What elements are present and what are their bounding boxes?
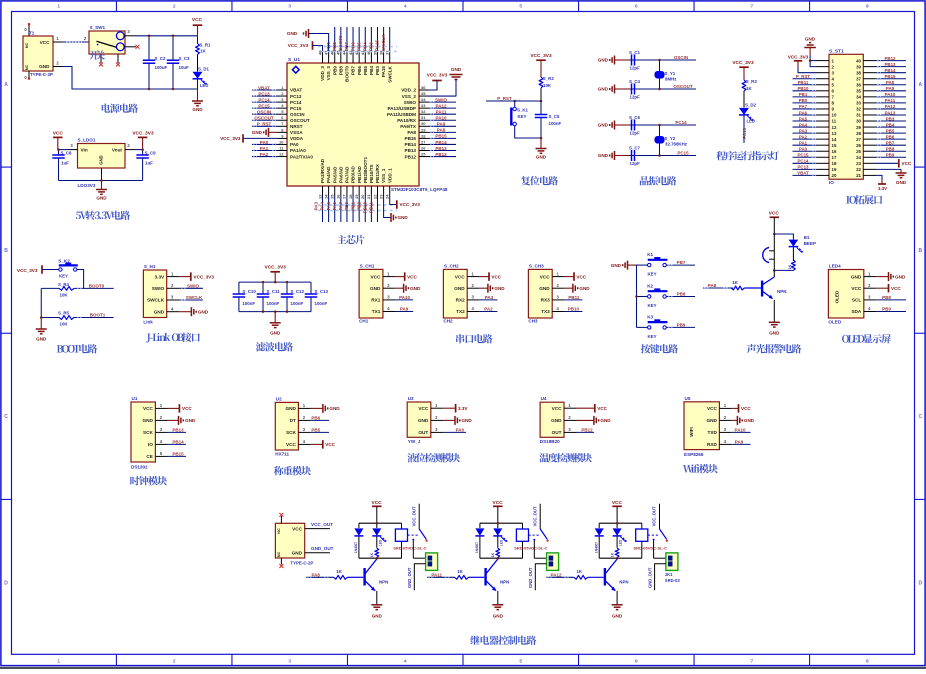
net PB8 wire OLED SCL <box>876 295 906 300</box>
svg-text:PB12: PB12 <box>581 428 593 433</box>
svg-text:38: 38 <box>856 70 861 75</box>
svg-text:GND: GND <box>598 153 609 158</box>
net OSCIN wire <box>660 55 697 60</box>
svg-text:VCC: VCC <box>370 274 381 279</box>
junction dots power rail <box>148 35 151 38</box>
svg-text:13: 13 <box>832 131 837 136</box>
net BOOT0 wire <box>41 284 113 289</box>
svg-text:PB12: PB12 <box>885 56 897 61</box>
S_ST1 pin 19 <box>793 165 837 172</box>
svg-text:PC15: PC15 <box>258 103 270 108</box>
capacitor S_C6 12pF <box>615 115 660 136</box>
svg-text:VCC_OUT: VCC_OUT <box>311 522 333 527</box>
svg-text:27: 27 <box>856 137 861 142</box>
power VCC temperature pin1 <box>577 404 608 413</box>
svg-text:PA2: PA2 <box>260 152 269 157</box>
svg-text:PC15: PC15 <box>290 106 302 111</box>
svg-text:PB14: PB14 <box>405 142 417 147</box>
svg-text:3.3V: 3.3V <box>878 186 887 191</box>
svg-text:3: 3 <box>288 4 291 10</box>
ground symbol wifi pin2 <box>732 416 755 425</box>
svg-text:K3: K3 <box>647 314 653 319</box>
svg-text:KEY: KEY <box>648 334 657 339</box>
svg-text:VCC: VCC <box>612 500 623 506</box>
svg-text:48: 48 <box>317 50 322 55</box>
svg-text:RXD: RXD <box>707 442 718 447</box>
svg-text:7: 7 <box>750 659 753 665</box>
svg-text:VCC_OUT: VCC_OUT <box>411 506 416 526</box>
svg-text:2: 2 <box>173 659 176 665</box>
label weight module <box>274 466 311 475</box>
svg-text:VCC: VCC <box>372 500 383 506</box>
push button K1 KEY <box>637 252 668 277</box>
ground symbol at S_C6 <box>614 121 616 130</box>
relay coil PA11 SRD-05VDC-SL-C <box>514 523 547 558</box>
capacitor S_C11 100nF <box>257 282 280 312</box>
svg-text:3.3V: 3.3V <box>155 274 166 279</box>
svg-text:18: 18 <box>832 161 837 166</box>
svg-text:LED4: LED4 <box>829 264 841 269</box>
svg-text:33: 33 <box>856 101 861 106</box>
switch open-contact no-connect marks <box>99 63 103 67</box>
svg-text:LED: LED <box>499 539 503 546</box>
capacitor S_C4 12pF <box>615 79 660 100</box>
net PA8 wire relay base <box>306 572 333 577</box>
U1 pin 1 VBAT <box>252 85 302 93</box>
svg-text:S_C1: S_C1 <box>629 50 641 55</box>
svg-text:19: 19 <box>354 194 359 199</box>
capacitor S_C13 100nF <box>305 282 329 312</box>
svg-text:GND: GND <box>598 123 609 128</box>
U1 pin 5 OSCIN <box>252 109 305 117</box>
svg-text:SCK: SCK <box>143 430 154 435</box>
svg-text:P_RST: P_RST <box>257 122 272 127</box>
svg-text:SRD-05VDC-SL-C: SRD-05VDC-SL-C <box>514 545 547 550</box>
svg-text:S_R3: S_R3 <box>746 79 758 84</box>
svg-text:GND: GND <box>99 155 104 164</box>
svg-text:S_C12: S_C12 <box>291 289 305 294</box>
svg-text:12pF: 12pF <box>630 161 641 166</box>
LED relay PA12 <box>613 523 628 548</box>
svg-text:NC: NC <box>25 43 29 49</box>
svg-text:GND: GND <box>39 64 50 69</box>
net PB9 wire OLED SDA <box>876 307 906 312</box>
svg-text:VCC: VCC <box>292 526 303 531</box>
svg-text:OLED: OLED <box>828 319 841 324</box>
svg-text:PA3: PA3 <box>485 295 494 300</box>
U1 pin 4 PC15 <box>252 103 302 111</box>
S_ST1 pin 4 <box>793 74 835 81</box>
resistor 1K relay LED PA8 <box>370 548 379 558</box>
svg-text:PB15: PB15 <box>172 452 184 457</box>
U1 pin 3 PC14 <box>252 97 302 105</box>
svg-text:GND: GND <box>410 286 421 291</box>
U1 pin 17 PA7/AD <box>338 166 350 222</box>
svg-text:GND: GND <box>192 107 203 112</box>
svg-text:PA7/AD: PA7/AD <box>345 166 350 183</box>
U1 pin 40 PB4 <box>362 27 374 75</box>
svg-text:GND_OUT: GND_OUT <box>407 567 412 588</box>
svg-text:PA11: PA11 <box>431 572 442 577</box>
ground symbol power circuit <box>192 89 203 112</box>
svg-text:TX2: TX2 <box>456 309 465 314</box>
svg-text:PB1: PB1 <box>799 92 808 97</box>
svg-text:GND_OUT: GND_OUT <box>647 567 652 588</box>
net PB7 wire key <box>666 260 695 265</box>
svg-text:GND: GND <box>493 614 504 619</box>
svg-text:PB9: PB9 <box>332 66 337 75</box>
svg-text:1K: 1K <box>732 280 738 285</box>
svg-text:RX2: RX2 <box>456 298 466 303</box>
svg-text:GND: GND <box>598 87 609 92</box>
svg-text:LED: LED <box>619 539 623 546</box>
svg-text:14: 14 <box>832 137 837 142</box>
svg-text:PA12: PA12 <box>551 572 562 577</box>
svg-text:PA2: PA2 <box>484 307 493 312</box>
svg-text:SCK: SCK <box>286 430 297 435</box>
svg-text:P_RST: P_RST <box>796 74 810 79</box>
svg-text:PB11: PB11 <box>798 80 809 85</box>
S_ST1 pin 1 <box>817 58 835 63</box>
svg-text:GND: GND <box>895 274 906 279</box>
label reset circuit <box>521 176 558 185</box>
svg-text:PC13: PC13 <box>290 94 302 99</box>
svg-text:SWIO: SWIO <box>435 97 447 102</box>
svg-text:25: 25 <box>856 149 861 154</box>
svg-text:29: 29 <box>856 125 861 130</box>
U1 pin 29 PA8 <box>407 127 456 135</box>
wire filter top rail <box>239 281 311 283</box>
connector S_CH2 serial <box>443 269 467 318</box>
label liquid level module <box>407 453 460 462</box>
svg-text:14: 14 <box>323 194 328 199</box>
svg-text:NC: NC <box>25 65 29 71</box>
svg-text:26: 26 <box>421 145 426 150</box>
svg-text:PA8: PA8 <box>437 128 446 133</box>
label program run indicator <box>716 151 778 160</box>
svg-text:PA13: PA13 <box>885 110 896 115</box>
svg-text:17: 17 <box>342 194 347 199</box>
svg-text:35: 35 <box>856 89 861 94</box>
capacitor S_C5 100nF <box>535 101 562 138</box>
svg-text:1K: 1K <box>491 552 495 557</box>
ground symbol at U1 VSS_3 <box>287 29 329 53</box>
U1 pin 14 PA4/AD <box>320 166 332 222</box>
svg-text:PB14: PB14 <box>172 440 184 445</box>
svg-text:S_C4: S_C4 <box>629 79 641 84</box>
S_ST1 pin 17 <box>793 153 837 160</box>
svg-text:PB1/AD: PB1/AD <box>357 165 362 183</box>
net PB10 wire <box>565 307 583 312</box>
resistor S_R3 1K <box>742 79 757 108</box>
svg-text:1uF: 1uF <box>145 161 153 166</box>
svg-text:GND: GND <box>154 309 165 314</box>
svg-text:S_D1: S_D1 <box>198 66 210 71</box>
svg-text:Link: Link <box>143 320 153 325</box>
net PA2 wire <box>480 307 498 312</box>
svg-text:S_R2: S_R2 <box>543 76 555 81</box>
svg-text:PB9: PB9 <box>677 323 686 328</box>
S_ST1 pin 7 <box>793 92 835 99</box>
svg-text:S_C7: S_C7 <box>629 145 641 150</box>
svg-text:PA9/TX: PA9/TX <box>400 124 417 129</box>
module U4 DS18B20 <box>540 402 564 437</box>
svg-text:PB6: PB6 <box>311 416 320 421</box>
net PA12 wire relay base <box>546 572 573 577</box>
svg-text:GND: GND <box>398 215 409 220</box>
no-connect marks T2 <box>279 513 283 517</box>
svg-text:10: 10 <box>832 113 837 118</box>
svg-text:5: 5 <box>519 659 522 665</box>
power VCC wifi pin1 <box>732 404 751 413</box>
U1 pin 16 PA6/AD <box>332 166 344 222</box>
svg-text:GND: GND <box>451 67 462 72</box>
U1 pin 45 PB8 <box>332 27 344 75</box>
svg-text:PA12: PA12 <box>885 104 896 109</box>
svg-text:12: 12 <box>279 151 284 156</box>
label dianyuan circuit <box>102 104 138 113</box>
U1 pin 46 PB9 <box>326 27 338 75</box>
svg-text:VCC: VCC <box>493 500 504 506</box>
net P_RST wire <box>486 96 541 101</box>
svg-text:TX3: TX3 <box>541 309 550 314</box>
svg-text:PA3/RX/AD: PA3/RX/AD <box>320 158 325 183</box>
svg-text:13: 13 <box>317 194 322 199</box>
S_ST1 pin 3 <box>817 70 835 75</box>
svg-text:NPN: NPN <box>777 289 787 294</box>
connector S_CH1 serial <box>359 269 383 318</box>
svg-text:32.768KHz: 32.768KHz <box>665 142 688 147</box>
U1 pin 20 PB2/BOOT1 <box>356 157 368 222</box>
svg-text:U1: U1 <box>132 396 138 401</box>
svg-text:PB5: PB5 <box>886 128 895 133</box>
svg-text:GND: GND <box>551 418 562 423</box>
svg-text:PA2/TX/A0: PA2/TX/A0 <box>290 154 313 159</box>
svg-text:100nF: 100nF <box>315 301 328 306</box>
svg-text:PC14: PC14 <box>675 120 687 125</box>
svg-text:19: 19 <box>832 167 837 172</box>
svg-text:PA0: PA0 <box>260 140 269 145</box>
power VCC_3V3 filter <box>265 265 287 282</box>
svg-text:PB11/RX: PB11/RX <box>375 163 380 183</box>
connector S_ST1 IO header <box>829 48 863 185</box>
U1 pin 38 PA15 <box>375 27 387 77</box>
svg-text:OSCIN: OSCIN <box>290 112 305 117</box>
wire key to BOOT0 <box>77 270 84 289</box>
svg-text:S_SW1: S_SW1 <box>90 25 106 30</box>
svg-text:VCC: VCC <box>40 40 51 45</box>
svg-text:100nF: 100nF <box>242 301 255 306</box>
svg-text:VCC_3V3: VCC_3V3 <box>788 54 809 59</box>
svg-text:SCL: SCL <box>852 298 862 303</box>
U1 pin 36 VDD_2 <box>401 85 428 93</box>
svg-text:PA9: PA9 <box>735 440 744 445</box>
power 3.3V IO pin21 <box>876 175 887 190</box>
svg-text:GND: GND <box>96 196 107 201</box>
capacitor S_C8 1uF <box>52 150 72 181</box>
svg-text:GND_OUT: GND_OUT <box>528 567 533 588</box>
svg-text:PC14: PC14 <box>798 159 810 164</box>
U1 pin 41 PB5 <box>356 27 368 75</box>
svg-text:PB15: PB15 <box>435 134 447 139</box>
pin 0 no-connect marks <box>28 23 30 25</box>
svg-text:6: 6 <box>635 4 638 10</box>
svg-text:VCC: VCC <box>143 406 154 411</box>
svg-text:VCC: VCC <box>902 161 912 166</box>
U1 pin 27 PB14 <box>405 139 457 147</box>
resistor S_R1 1K <box>196 36 211 72</box>
transistor NPN relay PA11 <box>486 559 510 605</box>
svg-text:GND: GND <box>494 286 505 291</box>
svg-text:VCC: VCC <box>182 406 192 411</box>
svg-text:PB11: PB11 <box>369 202 374 214</box>
net PB5 wire weight <box>311 428 329 433</box>
svg-text:NPN: NPN <box>379 579 388 584</box>
svg-text:GND: GND <box>285 406 296 411</box>
svg-text:TYPE-C-2P: TYPE-C-2P <box>290 561 313 566</box>
S_ST1 pin 8 <box>793 98 835 105</box>
svg-text:PA9: PA9 <box>437 122 446 127</box>
svg-text:PA11: PA11 <box>885 98 896 103</box>
svg-text:VCC_3V3: VCC_3V3 <box>400 202 421 207</box>
svg-text:11: 11 <box>832 119 837 124</box>
svg-text:PB14: PB14 <box>435 140 447 145</box>
U1 pin 8 VSSA <box>278 127 304 135</box>
net GND_OUT wire relay PA12 <box>647 564 666 591</box>
LED relay PA11 <box>493 523 508 548</box>
svg-text:PB3: PB3 <box>886 116 895 121</box>
svg-text:VDD_3: VDD_3 <box>320 66 325 81</box>
svg-text:PB8: PB8 <box>677 292 686 297</box>
label BOOT circuit <box>57 344 97 353</box>
svg-text:PB9: PB9 <box>882 307 891 312</box>
net PA10 wire <box>395 295 413 300</box>
U1 pin 10 PA0 <box>252 139 299 147</box>
S_ST1 pin 15 <box>793 140 837 147</box>
svg-text:LED: LED <box>378 539 382 546</box>
module U3 YW_J <box>407 402 431 437</box>
svg-text:12: 12 <box>832 125 837 130</box>
svg-text:KEY: KEY <box>648 272 657 277</box>
wire LDO pin2 output <box>125 143 143 149</box>
ground symbol at S_C7 <box>614 151 616 160</box>
svg-text:12pF: 12pF <box>630 65 641 70</box>
svg-text:SWIO: SWIO <box>187 284 199 289</box>
U1 pin 2 PC13 <box>252 91 302 99</box>
svg-text:DT: DT <box>290 418 296 423</box>
svg-text:S_ST1: S_ST1 <box>829 48 844 54</box>
svg-text:PA9: PA9 <box>886 86 895 91</box>
svg-text:BOOT1: BOOT1 <box>90 313 106 318</box>
svg-text:2: 2 <box>173 4 176 10</box>
svg-text:NPN: NPN <box>500 579 509 584</box>
svg-text:GND: GND <box>418 418 429 423</box>
wire relay rails <box>480 523 523 558</box>
svg-text:18: 18 <box>348 194 353 199</box>
ground symbol OLED pin1 <box>876 272 905 281</box>
svg-text:PA6: PA6 <box>799 110 808 115</box>
relay contact switch PA11 <box>529 504 549 559</box>
S_ST1 pin 29 <box>856 122 906 129</box>
ground symbol S_CH3 pin2 <box>565 284 591 293</box>
svg-text:U2: U2 <box>276 396 282 401</box>
ground symbol relay PA12 <box>612 605 623 619</box>
U1 pin 24 VDD_1 <box>385 168 393 199</box>
svg-text:LED: LED <box>747 119 755 124</box>
svg-text:PA4/AD: PA4/AD <box>326 166 331 183</box>
relay contact switch PA8 <box>408 504 428 559</box>
resistor 1K relay LED PA12 <box>610 548 619 558</box>
U1 pin 13 PA3/RX/AD <box>314 158 326 222</box>
svg-text:16: 16 <box>336 194 341 199</box>
svg-text:S_C6: S_C6 <box>629 115 641 120</box>
svg-text:33: 33 <box>421 103 426 108</box>
label wifi module <box>683 464 718 473</box>
svg-text:BOOT0: BOOT0 <box>345 66 350 82</box>
grid dash marks above U1 <box>318 46 397 48</box>
svg-text:S_C3: S_C3 <box>179 56 191 61</box>
S_ST1 pin 13 <box>793 128 837 135</box>
svg-text:PA5: PA5 <box>326 202 331 211</box>
svg-text:32: 32 <box>856 107 861 112</box>
power VCC_3V3 at U1 VDD_1 <box>390 196 421 209</box>
U1 pin 11 PA1/A0 <box>252 145 306 153</box>
U1 pin 48 VDD_3 <box>317 50 325 81</box>
net PB15 wire clock <box>168 452 186 457</box>
transistor NPN relay PA12 <box>605 559 629 605</box>
svg-text:S_Y1: S_Y1 <box>665 71 676 76</box>
svg-text:B: B <box>4 248 8 254</box>
U1 pin 12 PA2/TX/A0 <box>252 151 313 159</box>
svg-text:PA8: PA8 <box>886 80 895 85</box>
svg-text:VCC: VCC <box>455 274 466 279</box>
svg-text:6: 6 <box>635 659 638 665</box>
net PA9 wire <box>395 307 413 312</box>
svg-text:PA10: PA10 <box>735 428 746 433</box>
U1 pin 21 PB10/TX <box>362 163 374 222</box>
power VCC S_CH1 pin1 <box>395 272 417 281</box>
svg-text:PA1: PA1 <box>260 146 269 151</box>
svg-text:S_C10: S_C10 <box>242 289 256 294</box>
relay coil PA12 SRD-05VDC-SL-C <box>634 523 667 558</box>
svg-text:27: 27 <box>421 139 426 144</box>
svg-text:S_D2: S_D2 <box>745 103 757 108</box>
svg-text:CE: CE <box>146 454 153 459</box>
S_ST1 pin 26 <box>856 140 906 147</box>
svg-text:A: A <box>4 82 8 88</box>
svg-text:B: B <box>918 248 922 254</box>
svg-text:ESP8266: ESP8266 <box>684 452 704 457</box>
svg-text:DS18B20: DS18B20 <box>540 439 560 444</box>
svg-text:OSCIN: OSCIN <box>674 55 688 60</box>
svg-text:VCC_3V3: VCC_3V3 <box>132 131 154 137</box>
svg-text:PA12: PA12 <box>436 103 447 108</box>
S_ST1 pin 32 <box>856 104 906 111</box>
svg-text:PB13: PB13 <box>172 428 184 433</box>
svg-text:PB13: PB13 <box>435 146 447 151</box>
relay contact switch PA12 <box>648 504 668 559</box>
svg-text:P_RST: P_RST <box>497 96 512 101</box>
svg-text:S_C8: S_C8 <box>61 151 73 156</box>
svg-text:GND: GND <box>370 286 381 291</box>
svg-text:7: 7 <box>750 4 753 10</box>
svg-text:S_CH3: S_CH3 <box>529 263 544 268</box>
resistor 1K relay base PA11 <box>455 569 485 579</box>
svg-text:PA8: PA8 <box>708 283 717 288</box>
svg-text:100nF: 100nF <box>291 301 304 306</box>
svg-text:SRD-05VDC-SL-C: SRD-05VDC-SL-C <box>393 545 426 550</box>
svg-text:GND: GND <box>769 331 780 336</box>
